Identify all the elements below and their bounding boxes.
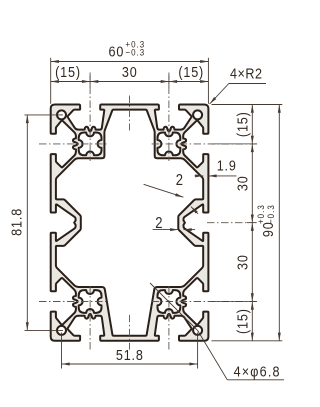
screw boss hole bottom-left xyxy=(79,290,102,313)
svg-text:2: 2 xyxy=(176,172,183,189)
label 2 chamfer wall thickness xyxy=(144,172,198,214)
svg-text:4×φ6.8: 4×φ6.8 xyxy=(234,363,281,380)
svg-text:(15): (15) xyxy=(55,63,81,80)
centerline vertical mid bottom cap xyxy=(129,315,131,350)
centerline horizontal y=143.9 right xyxy=(152,143,258,145)
svg-text:(15): (15) xyxy=(233,308,250,334)
centerline horizontal y=222.65 stub right xyxy=(207,222,246,224)
dimension 51.8 hole pitch, bottom xyxy=(62,333,198,369)
centerline vertical x=168.9 lower xyxy=(168,286,170,351)
svg-text:30: 30 xyxy=(233,254,250,270)
corner hole top-left (phi6.8) xyxy=(57,110,66,119)
centerline vertical x=90.1 upper xyxy=(89,73,91,162)
label 1.9 slot lip thickness xyxy=(195,157,237,178)
label 2 slot back wall thickness xyxy=(153,215,196,232)
centerline horizontal y=143.9 left xyxy=(39,143,108,145)
svg-text:−0.3: −0.3 xyxy=(265,204,276,224)
corner hole bottom-right (phi6.8) xyxy=(193,326,202,335)
svg-text:81.8: 81.8 xyxy=(7,208,24,236)
svg-text:4×R2: 4×R2 xyxy=(230,65,262,82)
svg-text:51.8: 51.8 xyxy=(116,346,144,363)
svg-text:−0.3: −0.3 xyxy=(125,47,145,58)
dimension (15) 30 30 (15) slot pitch, right xyxy=(212,105,283,341)
screw boss hole top-right xyxy=(158,133,181,156)
dimension 90 +0.3/-0.3 overall height, right xyxy=(90,76,281,341)
label 4xR2 corner radius with leader xyxy=(210,65,266,104)
svg-text:30: 30 xyxy=(122,63,138,80)
svg-text:30: 30 xyxy=(233,175,250,191)
svg-text:60: 60 xyxy=(109,42,125,59)
texts of right pitch dimension xyxy=(233,111,250,334)
profile body: 60x90 aluminium extrusion cross-section with T-slots and center cavity xyxy=(51,105,209,341)
svg-text:(15): (15) xyxy=(178,63,204,80)
corner hole top-right (phi6.8) xyxy=(193,110,202,119)
dimension 60 +0.3/-0.3 overall width, top xyxy=(51,58,209,104)
screw boss hole bottom-right xyxy=(158,290,181,313)
dimension 81.8 hole pitch, left xyxy=(7,115,63,331)
centerline horizontal y=301.5 left xyxy=(39,301,108,303)
centerline vertical x=90.1 lower xyxy=(89,286,91,351)
screw boss hole top-left xyxy=(79,133,102,156)
centerline vertical mid top cap xyxy=(129,96,131,131)
centerline horizontal y=301.5 right xyxy=(152,301,258,303)
corner hole bottom-left (phi6.8) xyxy=(57,326,66,335)
dimension (15) 30 (15) slot pitch, top xyxy=(51,39,209,83)
label 4x phi6.8 through holes with leader xyxy=(150,283,284,380)
centerline vertical x=168.9 upper xyxy=(168,73,170,162)
svg-text:1.9: 1.9 xyxy=(217,157,237,174)
text 90 +0.3/-0.3 rotated xyxy=(255,204,276,237)
svg-text:(15): (15) xyxy=(233,111,250,137)
